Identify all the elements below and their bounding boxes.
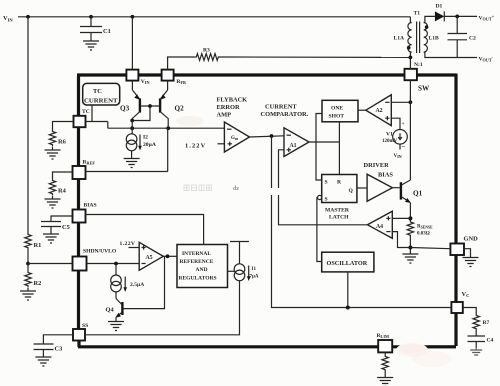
core	[417, 22, 420, 54]
svg-text:A2: A2	[376, 108, 383, 114]
svg-text:R6: R6	[58, 139, 67, 146]
svg-text:BIAS: BIAS	[84, 203, 97, 209]
svg-text:2.5µA: 2.5µA	[130, 282, 144, 288]
svg-text:AND: AND	[196, 267, 208, 273]
resistor R3	[195, 48, 221, 61]
svg-text:Q4: Q4	[106, 307, 115, 314]
wire driver to Q1 base	[392, 187, 399, 189]
svg-text:FLYBACK: FLYBACK	[217, 97, 248, 104]
wire ref block to I1	[228, 270, 235, 272]
wire GND pin to ground	[464, 249, 471, 255]
wire RREF riser to Q2 collector	[86, 128, 168, 171]
junction comp node	[270, 134, 274, 138]
comparator A2	[366, 95, 392, 126]
IC boundary	[77, 74, 456, 348]
watermark gap on risers	[267, 188, 282, 195]
current source I2	[124, 121, 156, 168]
svg-text:0.03Ω: 0.03Ω	[417, 232, 430, 237]
svg-text:RSENSE: RSENSE	[417, 225, 433, 230]
junction top-left	[26, 15, 30, 19]
svg-text:120mV: 120mV	[382, 139, 398, 144]
svg-text:dz: dz	[233, 186, 239, 192]
svg-text:AMP: AMP	[217, 112, 232, 119]
svg-text:COMPARATOR.: COMPARATOR.	[261, 111, 309, 118]
pin Vc wiring	[463, 308, 476, 315]
wire SS pin to C3	[43, 335, 73, 344]
comparator A1	[261, 104, 310, 157]
svg-text:Q2: Q2	[175, 105, 185, 113]
svg-text:+: +	[402, 121, 405, 127]
capacitor C2	[448, 16, 477, 57]
svg-text:RREF: RREF	[83, 160, 96, 166]
svg-text:Gm: Gm	[231, 136, 239, 141]
junction SW/R3	[409, 56, 413, 60]
junction osc on comp line	[346, 306, 350, 310]
svg-text:C2: C2	[469, 36, 476, 42]
pin SS	[73, 323, 88, 341]
junction C2 top	[455, 15, 459, 19]
junction VIN pin drop	[131, 15, 135, 19]
wire A1 out to latch R	[309, 141, 339, 143]
svg-text:R7: R7	[483, 320, 490, 326]
junction SW sense	[409, 100, 413, 104]
svg-text:N:1: N:1	[414, 62, 423, 68]
svg-text:L1B: L1B	[429, 36, 440, 42]
svg-text:RFB: RFB	[176, 79, 186, 85]
svg-text:C3: C3	[55, 346, 63, 353]
svg-text:V1: V1	[386, 132, 393, 138]
wire L1B top to D1	[425, 16, 435, 22]
wire one-shot to latch R	[338, 122, 340, 175]
junction Q3 collector	[130, 119, 134, 123]
svg-text:A4: A4	[376, 224, 383, 230]
resistor RSENSE	[407, 221, 433, 252]
svg-text:BIAS: BIAS	[378, 172, 393, 179]
wire error-amp input bus	[108, 127, 225, 129]
svg-text:VIN: VIN	[394, 153, 402, 159]
transistor Q1	[401, 180, 423, 221]
svg-text:A5: A5	[146, 255, 153, 261]
phase dot L1A	[407, 46, 411, 50]
junction SHDN divider	[26, 262, 30, 266]
junction 2.5uA tap	[114, 262, 118, 266]
wire sense node to GND pin	[410, 248, 450, 249]
junction C1	[89, 15, 93, 19]
wire D1 to VOUT+	[457, 15, 478, 17]
svg-text:RLIM: RLIM	[377, 333, 389, 339]
svg-text:SHDN/UVLO: SHDN/UVLO	[83, 249, 117, 255]
resistor R4	[49, 179, 66, 196]
wire BIAS pin to ref block	[86, 215, 204, 245]
node VIN	[3, 15, 13, 22]
capacitor C1	[80, 17, 111, 50]
wire secondary bottom to VOUT-	[425, 52, 477, 57]
pin GND	[450, 236, 478, 256]
svg-text:1.22V: 1.22V	[185, 143, 206, 150]
capacitor C3	[34, 344, 63, 366]
block MASTER LATCH	[318, 175, 357, 221]
buffer driver bias	[364, 162, 394, 201]
wire FB pin up to R3	[168, 57, 195, 70]
wire R1-R2	[27, 250, 29, 272]
winding L1A	[408, 23, 412, 53]
svg-text:TC: TC	[82, 109, 90, 115]
svg-text:DRIVER: DRIVER	[364, 162, 390, 169]
comparator A5	[120, 241, 164, 270]
pin FB	[162, 70, 186, 86]
svg-text:Q3: Q3	[120, 105, 130, 113]
svg-text:GND: GND	[464, 236, 479, 243]
block TC CURRENT	[83, 83, 120, 105]
svg-text:ONE: ONE	[331, 106, 343, 112]
junction I2 on bus	[130, 126, 134, 130]
resistor R1	[25, 233, 42, 250]
svg-text:SS: SS	[82, 323, 88, 329]
wire top VIN rail	[18, 16, 410, 18]
resistor R7	[473, 314, 490, 331]
ground R2	[20, 288, 36, 300]
junction bases	[148, 104, 152, 108]
transformer T1	[394, 11, 440, 54]
svg-text:T1: T1	[414, 11, 421, 17]
resistor R2	[25, 271, 42, 288]
wire RREF pin to R4	[53, 172, 73, 179]
pin SW	[405, 69, 430, 93]
diode D1	[435, 4, 457, 22]
svg-text:20µA: 20µA	[143, 142, 156, 148]
pin TC	[74, 109, 90, 127]
transistor Q3	[120, 81, 140, 121]
capacitor C4	[468, 331, 494, 356]
source V1 120mV	[382, 121, 407, 159]
ground RSENSE	[402, 251, 418, 263]
wire error amp out	[250, 136, 285, 137]
svg-text:R3: R3	[203, 48, 210, 54]
svg-text:SHOT: SHOT	[329, 114, 345, 120]
capacitor C5	[41, 222, 70, 244]
wire A2 minus to SW line	[391, 101, 410, 103]
wire oscillator to latch Sbar	[317, 198, 322, 262]
svg-text:CURRENT: CURRENT	[265, 104, 297, 111]
junction Q2 collector on bus	[166, 126, 170, 130]
transistor Q4	[106, 299, 125, 331]
wire rail down to transformer primary	[409, 17, 411, 23]
resistor RLIM external	[377, 352, 393, 386]
wire one-shot to latch S	[316, 114, 322, 181]
svg-text:A1: A1	[290, 143, 297, 149]
ground GND pin	[463, 255, 479, 267]
wire A5 feedback to Q4 base	[124, 256, 165, 308]
supply bar I1	[230, 242, 249, 264]
svg-text:REFERENCE: REFERENCE	[180, 259, 214, 265]
wire L1A bottom to SW node	[409, 52, 411, 69]
svg-text:Q: Q	[349, 188, 354, 194]
svg-text:D1: D1	[436, 4, 443, 10]
pin VIN	[126, 70, 149, 86]
svg-text:OSCILLATOR: OSCILLATOR	[327, 260, 368, 267]
wire A5 out to ref block	[163, 255, 177, 257]
wire comp node to Vc (line A)	[272, 136, 452, 308]
pin RLIM	[377, 333, 393, 352]
svg-text:1.22V: 1.22V	[120, 241, 136, 247]
wire latch Q to driver	[357, 187, 367, 189]
svg-text:L1A: L1A	[394, 36, 405, 42]
wire A4 plus to sense node	[392, 217, 410, 219]
block ONE SHOT	[322, 100, 358, 122]
svg-text:REGULATORS: REGULATORS	[179, 276, 217, 282]
wire SHDN pin to A5	[87, 263, 140, 265]
svg-text:TC: TC	[93, 88, 102, 95]
junction RSENSE bottom	[408, 246, 412, 250]
phase dot L1B	[425, 25, 429, 29]
svg-text:C5: C5	[62, 224, 70, 231]
svg-text:7µA: 7µA	[250, 275, 259, 280]
wire SW pin down to Q1	[409, 80, 411, 180]
current source I1	[234, 264, 259, 281]
svg-text:C4: C4	[487, 338, 494, 344]
svg-text:INTERNAL: INTERNAL	[182, 251, 211, 257]
pin SHDN/UVLO	[73, 249, 117, 271]
current source 2.5uA	[111, 264, 145, 299]
svg-text:VIN: VIN	[141, 79, 150, 85]
wire A2 out to one-shot	[358, 109, 366, 111]
wire A2 plus to V1	[391, 118, 400, 129]
svg-text:LATCH: LATCH	[329, 215, 349, 221]
pin BIAS	[73, 203, 97, 223]
wire A1 plus drop (line B)	[279, 150, 368, 225]
wire VIN rail to VIN pin	[131, 17, 133, 70]
wire divider to SHDN pin	[28, 263, 72, 265]
ground R6	[45, 147, 61, 159]
watermark smudges	[184, 185, 239, 192]
svg-text:SW: SW	[418, 85, 430, 93]
wire oscillator to comp line	[347, 272, 349, 308]
transistor Q2	[160, 81, 184, 129]
op-amp flyback error amp	[185, 97, 250, 153]
wire A4 minus to sense ground	[392, 232, 410, 248]
pin Vc	[451, 291, 469, 313]
svg-text:I2: I2	[143, 135, 148, 141]
svg-text:–: –	[401, 143, 406, 150]
wire Q3/Q2 base tie	[132, 106, 160, 121]
svg-text:CURRENT: CURRENT	[84, 98, 118, 105]
block OSCILLATOR	[322, 252, 374, 272]
svg-text:S: S	[325, 197, 328, 203]
resistor R6	[49, 130, 66, 147]
wire I1 to SS pin	[85, 281, 240, 335]
svg-text:R1: R1	[34, 242, 42, 249]
ground R4	[45, 196, 61, 208]
wire TC pin to R6	[53, 122, 74, 131]
svg-text:ERROR: ERROR	[217, 104, 240, 111]
wire BIAS pin to C5	[51, 216, 73, 222]
wire R3 to SW node	[221, 56, 410, 58]
svg-text:Q1: Q1	[413, 190, 423, 198]
svg-text:MASTER: MASTER	[325, 208, 350, 214]
block INTERNAL REFERENCE AND REGULATORS	[177, 245, 228, 288]
svg-text:I1: I1	[252, 267, 257, 272]
wire TC pin net	[86, 105, 108, 128]
svg-text:C1: C1	[103, 28, 111, 35]
wire left rail	[27, 17, 29, 233]
winding L1B	[424, 23, 428, 53]
junction Q1 emitter	[408, 216, 412, 220]
junction A5 out	[166, 254, 170, 258]
pin RREF	[73, 160, 96, 180]
svg-text:R2: R2	[34, 280, 42, 287]
comparator A4	[367, 211, 392, 238]
svg-text:S: S	[325, 180, 328, 186]
svg-text:R4: R4	[58, 188, 67, 195]
